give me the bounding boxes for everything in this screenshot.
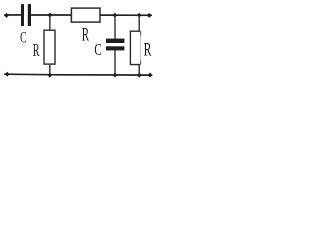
terminal top-left — [4, 13, 9, 18]
junction dot on rail under C2 — [113, 73, 118, 78]
terminal bottom-left — [5, 72, 10, 77]
bottom rail wire — [4, 73, 152, 76]
resistor R1 box — [44, 30, 55, 64]
junction dot on rail under R1 — [48, 73, 53, 78]
capacitor C2 plate 2 — [106, 46, 124, 50]
wire C2 to bottom rail — [114, 50, 116, 75]
svg-text:C: C — [94, 41, 101, 60]
node junction J1 — [48, 13, 53, 18]
junction dot on rail under R3 — [137, 73, 142, 78]
capacitor C1 plate 2 — [28, 4, 31, 26]
capacitor C1 plate 1 — [21, 4, 24, 26]
wire input top-left — [4, 14, 21, 16]
capacitor C2 plate 1 — [106, 39, 124, 43]
wire R3 to bottom rail — [138, 65, 140, 75]
resistor R3 box right edge bottom stub — [140, 61, 142, 65]
resistor R3 box right edge (faint) — [140, 31, 142, 64]
wire J3 down to R3 — [138, 16, 140, 32]
svg-text:R: R — [33, 41, 40, 61]
resistor R2 box — [71, 8, 100, 22]
svg-text:R: R — [82, 25, 90, 46]
wire R2 to output terminal — [101, 14, 153, 16]
svg-text:C: C — [20, 28, 26, 46]
wire J1 down to R1 — [49, 16, 51, 31]
wire C1 to R2 — [31, 14, 71, 16]
terminal top-right — [147, 13, 152, 18]
resistor R3 box — [130, 31, 140, 64]
wire R1 to bottom rail — [49, 65, 51, 76]
resistor R3 box right edge top stub — [140, 31, 142, 35]
svg-text:R: R — [144, 40, 152, 60]
wire J2 down to C2 — [114, 16, 116, 40]
terminal bottom-right — [148, 73, 153, 78]
node junction J3 — [137, 13, 142, 18]
node junction J2 — [112, 13, 117, 18]
